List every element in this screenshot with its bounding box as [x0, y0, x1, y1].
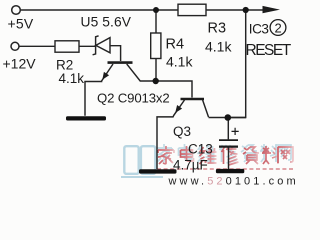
svg-text:+5V: +5V [8, 16, 34, 32]
svg-text:IC3: IC3 [249, 22, 269, 37]
svg-text:R4: R4 [166, 37, 185, 53]
svg-text:RESET: RESET [246, 42, 292, 59]
svg-text:4.1k: 4.1k [166, 54, 193, 70]
svg-text:4.1k: 4.1k [205, 39, 232, 55]
svg-text:2: 2 [275, 20, 282, 35]
svg-text:C13: C13 [188, 142, 213, 157]
svg-text:R3: R3 [208, 21, 227, 37]
svg-text:www.520101.com: www.520101.com [168, 176, 299, 188]
svg-text:Q3: Q3 [173, 124, 191, 139]
svg-text:4.7µF: 4.7µF [173, 158, 208, 173]
svg-text:Q2 C9013x2: Q2 C9013x2 [97, 91, 170, 106]
svg-text:4.1k: 4.1k [59, 71, 85, 86]
svg-text:U5 5.6V: U5 5.6V [81, 15, 132, 30]
svg-text:+12V: +12V [3, 56, 37, 72]
